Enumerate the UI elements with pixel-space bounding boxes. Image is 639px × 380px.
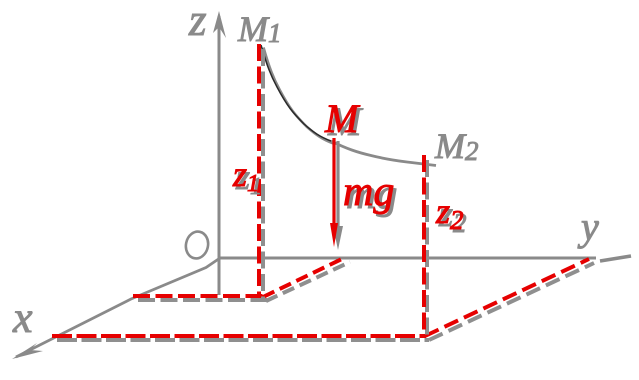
wire: small parallelogram diagonal (gray shadow) bbox=[266, 262, 350, 301]
svg-text:M: M bbox=[324, 96, 361, 141]
wire: plane right edge diagonal (red dashed) bbox=[425, 259, 589, 336]
wire: small parallelogram horizontal (gray shadow) bbox=[138, 298, 267, 302]
wire: projection M2 vertical (red dashed) bbox=[422, 155, 426, 338]
wire: projection M1 vertical (gray shadow) bbox=[261, 49, 265, 302]
svg-text:z2: z2 bbox=[435, 191, 464, 235]
wire: small parallelogram horizontal (red dashed) bbox=[133, 294, 263, 298]
label O bbox=[183, 230, 210, 261]
svg-text:M2: M2 bbox=[434, 126, 479, 166]
vector mg (gray shadow) bbox=[333, 141, 343, 250]
svg-text:y: y bbox=[577, 204, 599, 249]
vector mg (red arrow) bbox=[330, 138, 338, 247]
curve M1-M (dark) bbox=[261, 45, 331, 141]
y-axis bbox=[219, 256, 631, 261]
wire: projection M2 vertical (gray shadow) bbox=[425, 160, 429, 342]
wire: small parallelogram diagonal (red dashed) bbox=[263, 257, 346, 297]
x-axis bbox=[12, 258, 220, 359]
wire: plane bottom edge (gray shadow) bbox=[57, 338, 429, 342]
wire: projection M1 vertical (red dashed) bbox=[257, 44, 261, 297]
svg-text:z: z bbox=[188, 0, 207, 45]
curve M-M2 (gray) bbox=[331, 141, 436, 166]
wire: plane right edge diagonal (gray shadow) bbox=[429, 263, 594, 340]
z-axis bbox=[213, 11, 226, 295]
svg-text:M1: M1 bbox=[237, 9, 282, 49]
wire: plane bottom edge (red dashed) bbox=[52, 334, 425, 338]
svg-text:z1: z1 bbox=[232, 154, 259, 197]
svg-text:mg: mg bbox=[343, 169, 394, 215]
svg-text:x: x bbox=[12, 293, 33, 342]
curve M1-M2 (gray shadow) bbox=[264, 48, 334, 144]
